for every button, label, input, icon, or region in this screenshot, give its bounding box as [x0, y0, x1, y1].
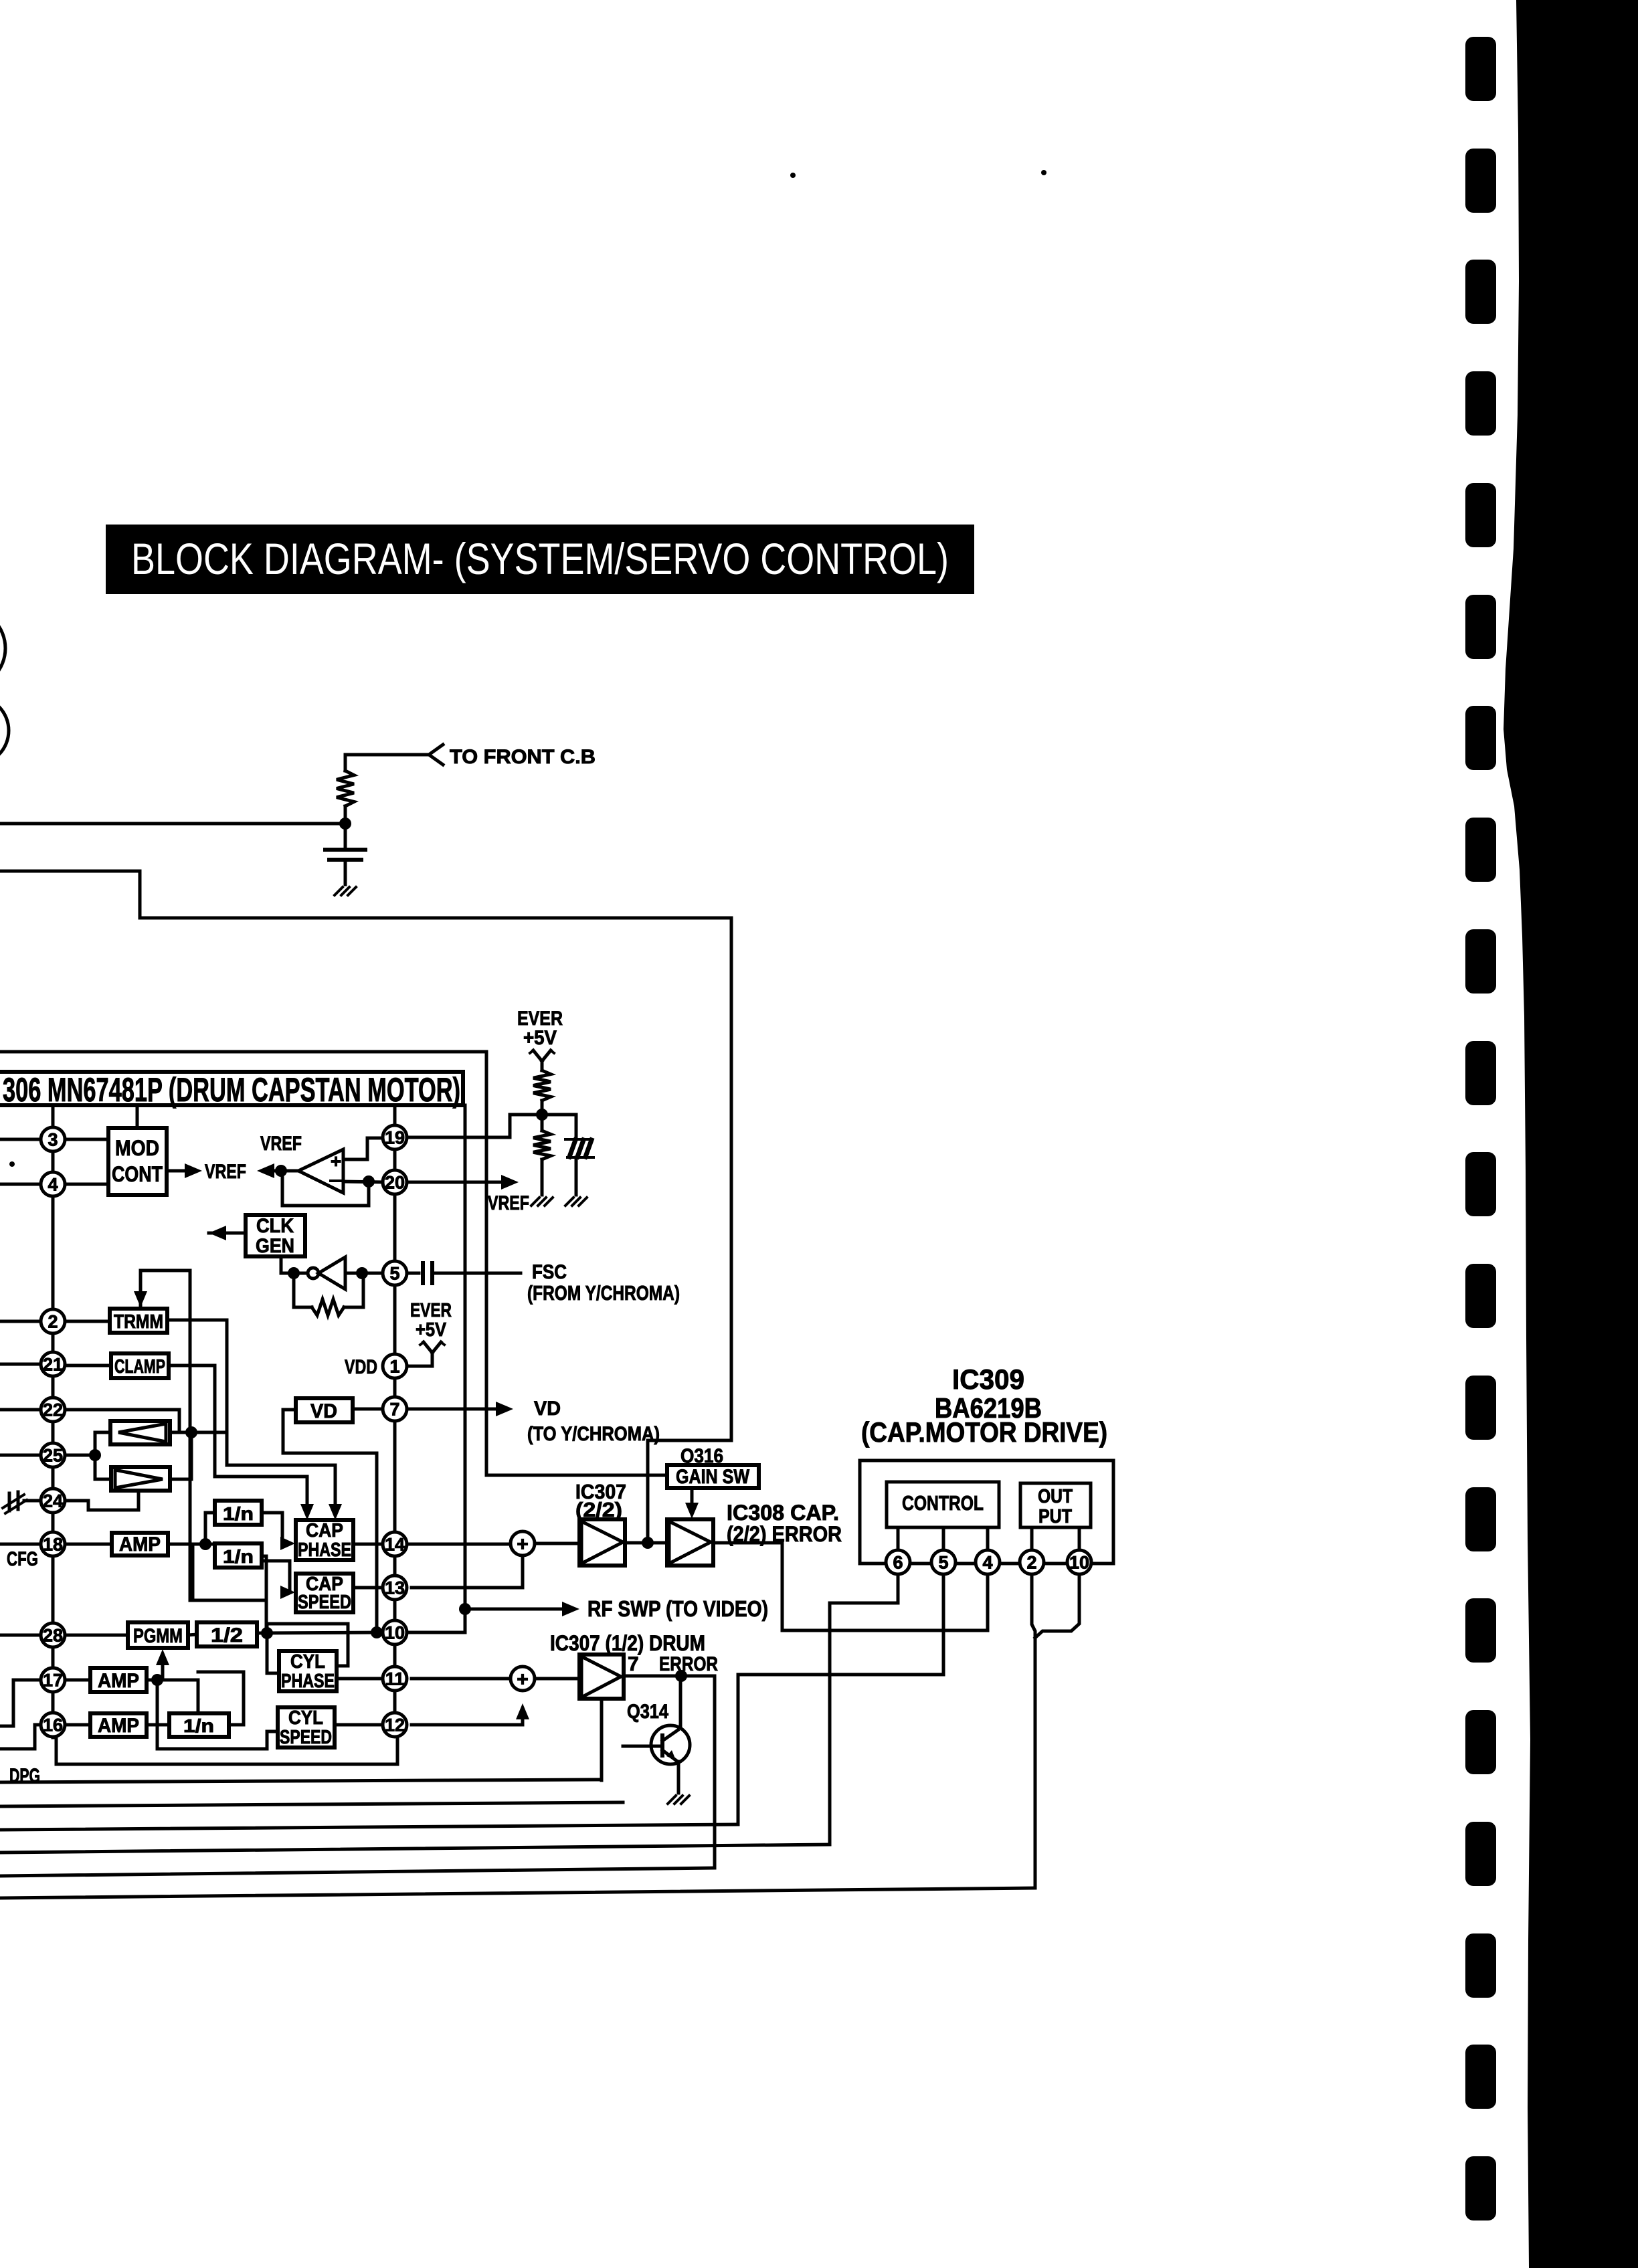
- svg-text:CYL: CYL: [290, 1651, 325, 1673]
- svg-text:VREF: VREF: [488, 1192, 529, 1214]
- svg-text:Q316: Q316: [680, 1445, 723, 1467]
- svg-text:306 MN67481P (DRUM CAPSTAN MO: 306 MN67481P (DRUM CAPSTAN MOTOR): [3, 1071, 460, 1109]
- svg-text:10: 10: [385, 1623, 405, 1643]
- svg-text:1/n: 1/n: [183, 1715, 214, 1736]
- svg-text:13: 13: [385, 1578, 405, 1598]
- svg-text:CYL: CYL: [288, 1707, 323, 1729]
- svg-text:(TO Y/CHROMA): (TO Y/CHROMA): [527, 1423, 660, 1445]
- svg-text:VD: VD: [310, 1400, 337, 1422]
- svg-text:4: 4: [48, 1175, 58, 1195]
- svg-text:RF SWP (TO VIDEO): RF SWP (TO VIDEO): [587, 1596, 768, 1621]
- svg-text:SPEED: SPEED: [298, 1592, 351, 1613]
- svg-text:1/2: 1/2: [211, 1624, 243, 1646]
- svg-text:CLK: CLK: [256, 1215, 294, 1237]
- svg-text:FSC: FSC: [532, 1261, 567, 1283]
- svg-text:+5V: +5V: [416, 1319, 447, 1341]
- svg-text:21: 21: [43, 1355, 63, 1375]
- svg-text:+: +: [331, 1151, 341, 1171]
- svg-text:AMP: AMP: [119, 1533, 161, 1555]
- svg-text:GEN: GEN: [256, 1235, 294, 1257]
- svg-text:16: 16: [43, 1715, 63, 1735]
- svg-text:IC308 CAP.: IC308 CAP.: [727, 1501, 839, 1525]
- svg-text:Q314: Q314: [627, 1701, 668, 1723]
- svg-text:5: 5: [389, 1264, 399, 1284]
- svg-text:2: 2: [48, 1312, 58, 1332]
- svg-text:10: 10: [1069, 1553, 1089, 1573]
- svg-text:(FROM Y/CHROMA): (FROM Y/CHROMA): [527, 1281, 680, 1305]
- svg-text:12: 12: [385, 1715, 405, 1735]
- svg-text:ERROR: ERROR: [659, 1653, 718, 1675]
- svg-text:AMP: AMP: [98, 1670, 139, 1692]
- svg-text:+: +: [517, 1533, 529, 1555]
- svg-text:BLOCK DIAGRAM- (SYSTEM/SERVO: BLOCK DIAGRAM- (SYSTEM/SERVO CONTROL): [131, 534, 949, 583]
- svg-text:AMP: AMP: [98, 1715, 139, 1737]
- svg-text:SPEED: SPEED: [280, 1727, 332, 1748]
- svg-text:+5V: +5V: [523, 1027, 557, 1049]
- svg-text:MOD: MOD: [115, 1136, 159, 1160]
- svg-text:CONT: CONT: [112, 1162, 163, 1186]
- svg-text:PHASE: PHASE: [281, 1671, 335, 1692]
- svg-text:4: 4: [982, 1553, 992, 1573]
- svg-text:GAIN SW: GAIN SW: [676, 1466, 750, 1488]
- svg-text:24: 24: [43, 1491, 63, 1511]
- svg-text:1/n: 1/n: [223, 1503, 254, 1524]
- svg-text:VREF: VREF: [260, 1133, 302, 1155]
- svg-text:7: 7: [628, 1653, 639, 1675]
- svg-text:PUT: PUT: [1038, 1506, 1072, 1527]
- svg-text:18: 18: [43, 1535, 63, 1555]
- svg-text:7: 7: [389, 1400, 399, 1420]
- svg-text:IC309: IC309: [952, 1363, 1024, 1395]
- svg-text:+: +: [517, 1669, 529, 1691]
- svg-text:TO FRONT C.B: TO FRONT C.B: [450, 746, 596, 768]
- svg-text:22: 22: [43, 1400, 63, 1420]
- svg-text:PHASE: PHASE: [298, 1539, 351, 1561]
- svg-text:(CAP.MOTOR DRIVE): (CAP.MOTOR DRIVE): [861, 1416, 1107, 1448]
- svg-text:CAP: CAP: [306, 1520, 343, 1541]
- svg-text:3: 3: [48, 1130, 58, 1150]
- svg-text:25: 25: [43, 1446, 63, 1466]
- svg-text:TRMM: TRMM: [114, 1311, 163, 1333]
- svg-text:14: 14: [385, 1535, 405, 1555]
- svg-text:1: 1: [389, 1357, 399, 1377]
- svg-text:VREF: VREF: [205, 1161, 246, 1183]
- svg-text:11: 11: [385, 1669, 405, 1689]
- svg-text:5: 5: [938, 1553, 948, 1573]
- svg-text:VD: VD: [534, 1398, 561, 1420]
- svg-text:19: 19: [385, 1128, 405, 1148]
- svg-text:IC307 (1/2) DRUM: IC307 (1/2) DRUM: [550, 1631, 705, 1655]
- svg-text:6: 6: [893, 1553, 903, 1573]
- svg-text:20: 20: [385, 1173, 405, 1193]
- svg-text:17: 17: [43, 1671, 63, 1691]
- svg-text:(2/2) ERROR: (2/2) ERROR: [727, 1522, 842, 1546]
- svg-text:VDD: VDD: [345, 1356, 377, 1378]
- svg-text:EVER: EVER: [410, 1300, 452, 1321]
- svg-text:(2/2): (2/2): [575, 1498, 622, 1521]
- svg-text:CLAMP: CLAMP: [114, 1356, 165, 1378]
- svg-text:CFG: CFG: [7, 1548, 38, 1570]
- svg-text:CONTROL: CONTROL: [902, 1491, 984, 1515]
- svg-text:2: 2: [1026, 1553, 1036, 1573]
- svg-text:28: 28: [43, 1626, 63, 1646]
- svg-text:1/n: 1/n: [223, 1546, 254, 1567]
- svg-text:PGMM: PGMM: [133, 1625, 183, 1647]
- svg-text:OUT: OUT: [1038, 1486, 1073, 1507]
